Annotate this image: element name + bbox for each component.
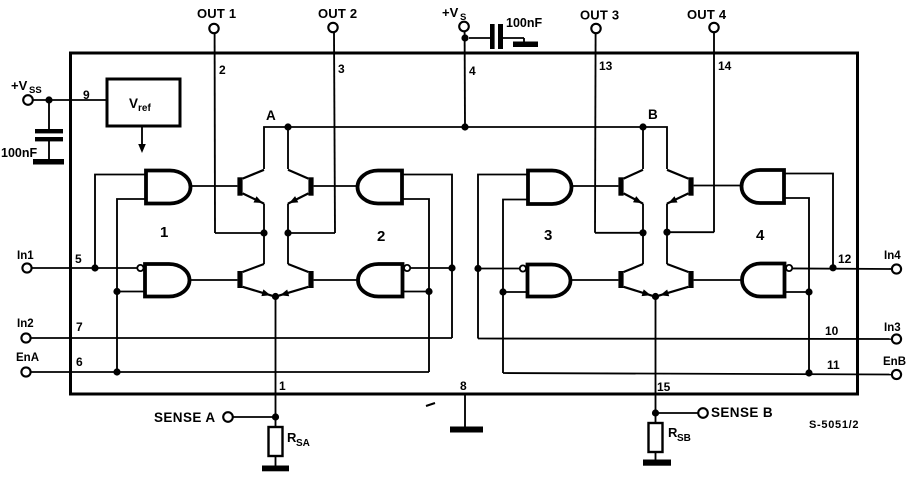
pin number 5 bbox=[75, 252, 82, 266]
wire OUT3 vertical bbox=[594, 34, 597, 233]
transistor Q8 emitter bbox=[657, 287, 689, 297]
svg-text:14: 14 bbox=[718, 59, 732, 73]
wire OUT4 junction bbox=[663, 229, 714, 236]
transistor Q2 emitter bbox=[243, 287, 274, 297]
capacitor 100nF (VSS) bbox=[35, 103, 63, 159]
wire EnB riser (gate3) bbox=[503, 200, 528, 374]
svg-text:10: 10 bbox=[825, 324, 839, 338]
svg-text:EnB: EnB bbox=[883, 356, 906, 368]
node In4 branch bbox=[829, 264, 836, 271]
label 100nF (VS) bbox=[506, 16, 542, 30]
node A bbox=[266, 108, 292, 131]
wire +VSS to pin 9 bbox=[33, 99, 107, 101]
wire gate1 lower output bbox=[190, 279, 238, 281]
wire SENSE B bbox=[656, 412, 699, 414]
svg-text:+V: +V bbox=[442, 5, 459, 20]
node B bbox=[639, 107, 658, 131]
ground (VSS cap) bbox=[33, 159, 64, 165]
wire OUT1 junction bbox=[215, 229, 268, 236]
svg-text:B: B bbox=[648, 107, 658, 122]
terminal In4 pin 12 bbox=[884, 250, 901, 274]
terminal In3 pin 10 bbox=[884, 322, 901, 344]
transistor Q8 base bar bbox=[688, 271, 693, 288]
wire gate4 upper output bbox=[694, 185, 742, 187]
node +VSS junction bbox=[45, 96, 52, 103]
wire gate2 lower input bbox=[403, 291, 430, 293]
ground (RSB) bbox=[643, 460, 671, 466]
wire node B drop bbox=[642, 127, 644, 169]
pin number 4 bbox=[469, 64, 476, 78]
node In3 branch bbox=[474, 265, 481, 272]
ground (VS cap) bbox=[513, 42, 538, 48]
terminal +VSS pin bbox=[11, 78, 42, 105]
svg-text:9: 9 bbox=[83, 88, 90, 102]
wire gate1 lower input bbox=[117, 291, 145, 293]
svg-text:SS: SS bbox=[29, 85, 42, 96]
svg-text:In2: In2 bbox=[17, 318, 34, 330]
ground (pin 8) bbox=[450, 427, 483, 433]
terminal OUT4 pin 14 bbox=[687, 7, 727, 32]
AND gate 4 lower bbox=[742, 264, 785, 297]
wire EnB riser (gate4) bbox=[784, 198, 809, 373]
wire OUT1 vertical bbox=[214, 34, 216, 234]
node EnB gate4 branch bbox=[805, 288, 812, 295]
svg-text:OUT 1: OUT 1 bbox=[197, 6, 236, 21]
resistor RSB bbox=[649, 413, 663, 460]
wire In4 bbox=[792, 267, 892, 270]
pin number 8 bbox=[460, 379, 467, 393]
node SENSE A junction bbox=[272, 413, 279, 420]
transistor Q5 base bar bbox=[618, 177, 623, 195]
terminal EnA pin 6 bbox=[16, 352, 39, 377]
inverter bubble gate4 bbox=[786, 265, 792, 271]
svg-text:13: 13 bbox=[599, 59, 613, 73]
node EnB right branch bbox=[805, 369, 812, 376]
svg-text:7: 7 bbox=[76, 320, 83, 334]
wire In3 bbox=[478, 338, 892, 341]
wire GND pin 8 stub bbox=[464, 394, 466, 427]
pin number 12 bbox=[838, 252, 852, 266]
wire OUT2 junction bbox=[284, 229, 335, 236]
wire In1 to gate1 upper input bbox=[95, 175, 146, 269]
wire gate1 upper output bbox=[191, 185, 238, 187]
inverter bubble gate1 bbox=[137, 265, 143, 271]
svg-text:5: 5 bbox=[75, 252, 82, 266]
wire EnA riser (gate2) bbox=[402, 199, 429, 372]
svg-text:6: 6 bbox=[76, 355, 83, 369]
pin number 10 bbox=[825, 324, 839, 338]
terminal In1 pin 5 bbox=[17, 250, 34, 273]
IC outline box bbox=[71, 53, 858, 394]
AND gate 1 lower bbox=[145, 264, 190, 297]
inverter bubble gate3 bbox=[520, 265, 526, 271]
wire gate2 upper output bbox=[314, 185, 358, 187]
svg-text:A: A bbox=[266, 108, 276, 123]
node EnA gate2 branch bbox=[425, 288, 432, 295]
svg-text:OUT 2: OUT 2 bbox=[318, 6, 357, 21]
AND gate 1 upper bbox=[146, 171, 191, 204]
wire In2 bbox=[31, 337, 452, 339]
svg-text:4: 4 bbox=[469, 64, 476, 78]
wire In3 riser (gate3) bbox=[478, 175, 528, 339]
terminal +VS pin 4 bbox=[442, 5, 469, 31]
wire gate2 lower output bbox=[314, 279, 358, 281]
AND gate 3 upper bbox=[528, 171, 572, 205]
node EnB gate3 branch bbox=[499, 288, 506, 295]
wire In2 riser (gate2) bbox=[402, 175, 452, 339]
svg-text:11: 11 bbox=[827, 358, 840, 372]
wire gate3 lower input bbox=[503, 291, 528, 293]
pin number 11 bbox=[827, 358, 840, 372]
transistor Q3 emitter bbox=[288, 193, 308, 203]
pin number 2 bbox=[219, 63, 226, 77]
AND gate 3 lower bbox=[528, 265, 571, 297]
AND gate 4 upper bbox=[742, 170, 785, 203]
svg-text:15: 15 bbox=[657, 380, 671, 394]
ground (RSA) bbox=[262, 466, 289, 472]
terminal OUT1 pin 2 bbox=[197, 6, 236, 33]
pin number 14 bbox=[718, 59, 732, 73]
transistor Q6 base bar bbox=[688, 177, 693, 195]
wire SENSE A bbox=[233, 416, 276, 418]
node sense A bbox=[272, 293, 279, 300]
wire gate3 upper output bbox=[572, 185, 619, 187]
block Vref U1 bbox=[107, 79, 180, 126]
wire EnB bbox=[503, 373, 892, 375]
pin number 6 bbox=[76, 355, 83, 369]
resistor RSA bbox=[269, 417, 283, 466]
wire OUT3 junction bbox=[595, 229, 647, 236]
node +VS cap junction bbox=[461, 34, 468, 41]
wire OUT4 vertical bbox=[713, 33, 715, 233]
arrow Vref output bbox=[138, 126, 146, 153]
pin number 15 bbox=[657, 380, 671, 394]
svg-text:1: 1 bbox=[160, 224, 168, 241]
node SENSE B junction bbox=[652, 409, 659, 416]
svg-text:OUT 3: OUT 3 bbox=[580, 8, 619, 23]
wire EnA riser (gate1) bbox=[117, 199, 146, 372]
node In1 branch bbox=[91, 264, 98, 271]
svg-text:2: 2 bbox=[219, 63, 226, 77]
wire OUT1 leg vertical bbox=[263, 204, 265, 264]
label gate 4 bbox=[756, 227, 765, 244]
terminal SENSE A bbox=[154, 410, 233, 425]
wire +VS vertical bbox=[464, 32, 466, 128]
svg-text:1: 1 bbox=[279, 379, 286, 393]
wire node A drop bbox=[287, 127, 289, 169]
wire OUT2 leg vertical bbox=[287, 204, 289, 264]
node EnA gate1 branch bbox=[113, 288, 120, 295]
node In2 branch bbox=[448, 264, 455, 271]
wire In4 riser (gate4) bbox=[784, 174, 833, 268]
svg-text:3: 3 bbox=[338, 62, 345, 76]
wire sense A vertical bbox=[275, 297, 277, 418]
transistor Q2 collector bbox=[243, 264, 264, 272]
capacitor 100nF (VS) bbox=[469, 24, 524, 49]
transistor Q2 base bar bbox=[237, 271, 242, 288]
wire supply rail A-B bbox=[264, 127, 667, 169]
transistor Q4 collector bbox=[288, 264, 308, 272]
AND gate 2 lower bbox=[358, 264, 403, 297]
wire In1 bbox=[32, 267, 138, 269]
label RSB bbox=[668, 425, 691, 444]
stray mark bbox=[426, 403, 435, 406]
AND gate 2 upper bbox=[358, 171, 403, 204]
svg-text:+V: +V bbox=[11, 78, 28, 93]
svg-text:OUT 4: OUT 4 bbox=[687, 7, 727, 22]
wire sense B vertical bbox=[655, 297, 657, 414]
label figure number bbox=[809, 419, 859, 431]
wire gate4 lower input bbox=[785, 291, 810, 293]
svg-text:S-5051/2: S-5051/2 bbox=[809, 419, 859, 431]
svg-text:8: 8 bbox=[460, 379, 467, 393]
wire gate2 bubble to In2 bbox=[410, 267, 452, 269]
wire OUT2 vertical bbox=[334, 33, 335, 234]
wire gate3 bubble to In3 bbox=[478, 268, 520, 270]
node sense B bbox=[652, 293, 659, 300]
node EnA branch bbox=[113, 368, 120, 375]
transistor Q6 emitter bbox=[667, 193, 688, 203]
terminal In2 pin 7 bbox=[17, 318, 34, 343]
wire OUT3 leg vertical bbox=[642, 204, 644, 264]
transistor Q5 emitter bbox=[624, 193, 643, 203]
svg-text:100nF: 100nF bbox=[506, 16, 542, 30]
pin number 1 bbox=[279, 379, 286, 393]
transistor Q3 base bar bbox=[308, 177, 313, 195]
pin number 9 bbox=[83, 88, 90, 102]
terminal OUT2 pin 3 bbox=[318, 6, 357, 32]
pin number 7 bbox=[76, 320, 83, 334]
wire gate4 lower output bbox=[694, 279, 742, 281]
node +VS rail junction bbox=[461, 123, 468, 130]
inverter bubble gate2 bbox=[404, 265, 410, 271]
transistor Q5 collector bbox=[624, 170, 643, 179]
svg-text:3: 3 bbox=[544, 227, 552, 244]
svg-text:SB: SB bbox=[677, 433, 691, 444]
label gate 2 bbox=[377, 228, 385, 245]
svg-text:100nF: 100nF bbox=[1, 146, 37, 160]
terminal EnB pin 11 bbox=[883, 356, 906, 379]
svg-text:In3: In3 bbox=[884, 322, 901, 334]
wire OUT4 leg vertical bbox=[666, 204, 668, 264]
label gate 1 bbox=[160, 224, 168, 241]
wire gate3 lower output bbox=[571, 279, 619, 281]
svg-text:In1: In1 bbox=[17, 250, 34, 262]
svg-text:SENSE B: SENSE B bbox=[711, 405, 773, 420]
transistor Q4 base bar bbox=[308, 271, 313, 288]
transistor Q7 collector bbox=[624, 264, 643, 272]
svg-text:EnA: EnA bbox=[16, 352, 39, 364]
transistor Q3 collector bbox=[288, 170, 308, 179]
svg-text:12: 12 bbox=[838, 252, 852, 266]
transistor Q7 base bar bbox=[618, 271, 623, 288]
transistor Q1 base bar bbox=[237, 177, 242, 195]
pin number 13 bbox=[599, 59, 613, 73]
svg-text:In4: In4 bbox=[884, 250, 901, 262]
wire EnA bbox=[31, 371, 429, 373]
terminal OUT3 pin 13 bbox=[580, 8, 619, 34]
transistor Q4 emitter bbox=[277, 287, 309, 297]
pin number 3 bbox=[338, 62, 345, 76]
svg-text:4: 4 bbox=[756, 227, 765, 244]
terminal SENSE B bbox=[698, 405, 773, 420]
transistor Q7 emitter bbox=[624, 287, 654, 297]
label RSA bbox=[287, 430, 310, 449]
label gate 3 bbox=[544, 227, 552, 244]
svg-text:2: 2 bbox=[377, 228, 385, 245]
svg-text:SA: SA bbox=[296, 438, 310, 449]
transistor Q1 collector bbox=[243, 170, 264, 179]
transistor Q8 collector bbox=[667, 264, 688, 272]
label 100nF (VSS) bbox=[1, 146, 37, 160]
transistor Q6 collector bbox=[667, 170, 688, 179]
transistor Q1 emitter bbox=[243, 193, 264, 203]
svg-text:SENSE A: SENSE A bbox=[154, 410, 216, 425]
